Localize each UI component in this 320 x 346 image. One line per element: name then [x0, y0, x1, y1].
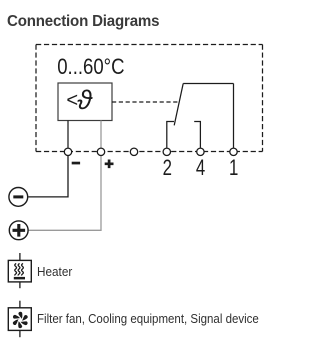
terminal circle 1 [230, 148, 237, 155]
heater symbol [8, 253, 31, 288]
svg-text:1: 1 [229, 156, 238, 181]
fan symbol [8, 301, 31, 338]
terminal circle minus [64, 148, 71, 155]
fan impeller [12, 312, 28, 328]
fan box [8, 308, 31, 331]
wire: box right lead to terminal plus (gray) [100, 121, 102, 148]
fan stub top [19, 301, 21, 308]
switch top bar [183, 83, 233, 85]
heater stub bottom [19, 282, 21, 288]
label 1 [229, 156, 238, 181]
heater wave 1 [15, 263, 17, 275]
fixed contact for terminal 2 [167, 122, 174, 148]
heater stub top [19, 253, 21, 260]
thermostat box U1 [58, 83, 112, 121]
label 4 [196, 156, 205, 181]
svg-text:4: 4 [196, 156, 205, 181]
switch blade [174, 84, 183, 126]
wire: terminal plus down (gray) [29, 156, 101, 231]
title: Connection Diagrams [7, 13, 159, 31]
terminal circle 2 [163, 148, 170, 155]
wire: terminal minus down [28, 156, 68, 197]
svg-text:ϑ: ϑ [77, 85, 93, 115]
fixed contact for terminal 4 [194, 122, 200, 148]
label Filter fan, Cooling equipment, Signal device [37, 312, 259, 326]
label Heater [37, 265, 72, 279]
wire: switch right side down to terminal 1 [233, 84, 235, 148]
label 0...60°C [57, 56, 124, 80]
label 2 [163, 156, 172, 181]
dashed enclosure rectangle [36, 44, 263, 46]
terminal circle plus [97, 148, 104, 155]
label minus terminal [72, 162, 80, 165]
svg-text:0...60°C: 0...60°C [57, 56, 124, 80]
heater wave 2 [18, 263, 20, 275]
heater wave 3 [22, 263, 24, 275]
heater element bar [14, 277, 25, 280]
terminal circle 4 [197, 148, 204, 155]
supply plus circle [9, 221, 28, 240]
label plus terminal [105, 160, 114, 169]
dashed actuator line from thermostat to switch [112, 101, 179, 103]
svg-text:2: 2 [163, 156, 172, 181]
supply minus circle [9, 188, 28, 207]
heater box [8, 260, 31, 282]
terminal circle unused [130, 148, 137, 155]
fan stub bottom [19, 330, 21, 337]
wire: box left lead to terminal minus [67, 121, 69, 148]
